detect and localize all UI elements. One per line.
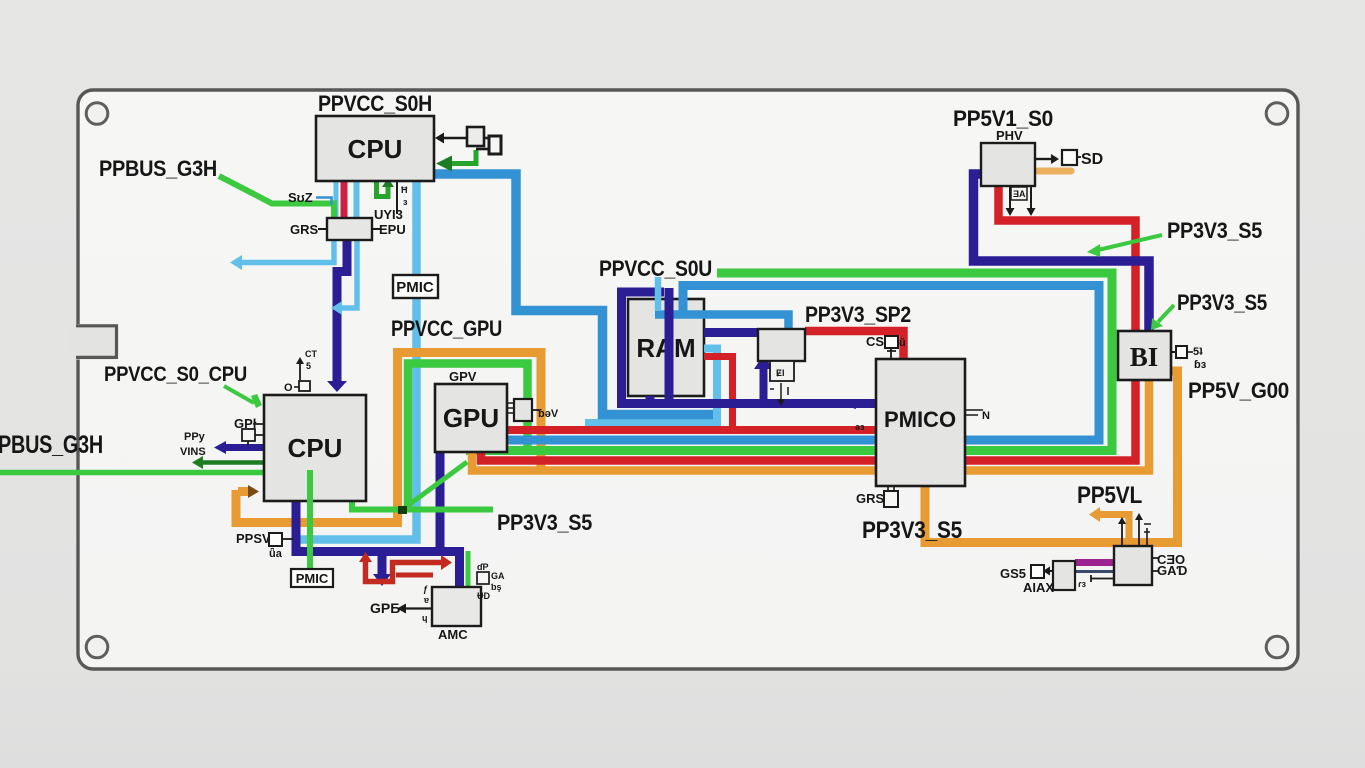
- svg-text:PPVCC_S0_CPU: PPVCC_S0_CPU: [104, 363, 247, 386]
- wire black arrows below PHV: [1009, 186, 1011, 208]
- svg-text:ɾɜ: ɾɜ: [1078, 579, 1087, 589]
- node junction dot: [398, 506, 407, 514]
- component pin box below SP2: [770, 361, 794, 381]
- component connector frame at CPU1 right: [484, 137, 489, 140]
- wire red GPU to PMICO: [507, 426, 877, 434]
- wire red SP2 to PMICO: [805, 331, 904, 360]
- wire navy through RAM: [665, 288, 674, 399]
- svg-text:GRS: GRS: [290, 222, 319, 237]
- wire navy GPU drop to AMC rail: [436, 452, 445, 552]
- block GPU: [435, 384, 507, 452]
- svg-text:PBUS_G3H: PBUS_G3H: [0, 431, 103, 459]
- wire cyan CPU1 to GRS: [354, 181, 360, 218]
- svg-text:PPy: PPy: [184, 431, 206, 443]
- svg-text:GAƊ: GAƊ: [1157, 563, 1188, 578]
- svg-text:5: 5: [306, 361, 311, 371]
- wire orange bundle GPU to BI bottom: [472, 380, 1149, 471]
- svg-text:ɓəV: ɓəV: [538, 408, 559, 420]
- wire black pin under CPU1: [396, 181, 398, 214]
- block aux (bottom right small): [1053, 561, 1075, 590]
- wire black charger link: [1091, 575, 1114, 582]
- wire navy arrow left from CPU2: [226, 444, 264, 451]
- wire orange PHV stub: [1038, 168, 1071, 175]
- svg-text:EPU: EPU: [379, 222, 406, 237]
- wire green CPU2 to PMIC label: [307, 470, 313, 569]
- svg-text:ǖa: ǖa: [269, 548, 283, 560]
- svg-text:PP3V3_S5: PP3V3_S5: [1167, 218, 1262, 243]
- wire cyan CPU long drop to PPSV: [293, 181, 417, 540]
- wire blue big loop GPU-PMICO-top: [507, 286, 1099, 441]
- wire blue pointer SUZ: [316, 198, 332, 206]
- mounting hole top-right: [1266, 103, 1288, 125]
- svg-text:AMC: AMC: [438, 627, 468, 642]
- svg-text:CPU: CPU: [288, 433, 343, 463]
- svg-text:AIAX: AIAX: [1023, 580, 1054, 595]
- PCB board outline: [78, 90, 1298, 669]
- pin DA box below PHV: [1011, 187, 1027, 200]
- block PHV (PP5V1 regulator): [981, 128, 1035, 186]
- svg-text:O: O: [284, 382, 293, 394]
- wire navy CPU2 bottom to AMC: [296, 501, 460, 587]
- wire black arrow GPB from AMC: [406, 607, 432, 609]
- svg-text:ɆI: ɆI: [776, 368, 785, 378]
- wire red loop at AMC: [366, 560, 442, 582]
- block regulator SP2: [758, 329, 805, 361]
- mounting hole bottom-left: [86, 636, 108, 658]
- svg-text:ɓɜ: ɓɜ: [1194, 359, 1207, 371]
- svg-text:PP3V3_S5: PP3V3_S5: [862, 517, 962, 544]
- block PMICO: [876, 359, 965, 486]
- svg-text:PP5V1_S0: PP5V1_S0: [953, 106, 1053, 131]
- svg-text:BI: BI: [1130, 342, 1159, 372]
- wire red RAM right branch: [704, 357, 733, 431]
- component connector square at CPU1 right: [467, 127, 484, 146]
- wire green long horizontal from CPU2: [352, 501, 493, 510]
- wire orange PMICO bottom to BI right: [925, 371, 1178, 543]
- wire navy RAM bottom stub: [646, 396, 655, 400]
- svg-text:ƎA: ƎA: [1013, 189, 1026, 199]
- svg-text:ƒ: ƒ: [423, 584, 428, 594]
- svg-text:PP3V3_SP2: PP3V3_SP2: [805, 302, 911, 327]
- board edge connector notch: [70, 324, 117, 360]
- block RAM: [628, 299, 704, 396]
- wire navy GRS down to CPU2 arrow: [337, 240, 347, 381]
- component SD square: [1062, 150, 1077, 165]
- svg-text:GPU: GPU: [443, 403, 499, 433]
- wire navy RAM to SP2: [704, 328, 758, 337]
- svg-text:ɗP: ɗP: [477, 562, 489, 572]
- block regulator GRS: [327, 218, 372, 240]
- wire dark green arrow left from CPU2: [203, 460, 264, 465]
- wire cyan arrow short left below GRS: [342, 240, 357, 308]
- wire green U pin under CPU1: [377, 181, 389, 197]
- mounting hole top-left: [86, 103, 108, 125]
- svg-text:PMIC: PMIC: [296, 571, 329, 586]
- wire black arrow up CT at CPU2: [299, 364, 301, 380]
- svg-text:PP3V3_S5: PP3V3_S5: [497, 510, 592, 535]
- svg-text:GPБ: GPБ: [370, 600, 400, 616]
- wire magenta charger link: [1075, 559, 1114, 566]
- block CPU lower (U2): [264, 395, 366, 501]
- wire green pointer PP3V3_S5 at BI: [1158, 305, 1174, 322]
- block CPU top (U1): [316, 116, 434, 181]
- wire navy arrow down branch: [378, 552, 387, 575]
- wire navy arrow up into SP2: [760, 367, 768, 404]
- wire green PPBUS_G3H to GRS: [219, 176, 334, 218]
- wire cyan arrow left from GRS: [242, 240, 334, 263]
- block BI: [1118, 331, 1171, 380]
- wire cyan RAM right upper stub: [585, 349, 717, 424]
- svg-text:ǔ: ǔ: [899, 337, 906, 349]
- wire black arrow aux to GS5: [1050, 570, 1053, 572]
- wire green pointer PP3V3_S5 upper: [1098, 235, 1162, 250]
- wire slate charger link: [1075, 570, 1114, 573]
- svg-text:N: N: [982, 410, 990, 422]
- wire red stub to AMC: [396, 573, 433, 578]
- svg-text:ɥ: ɥ: [422, 613, 428, 623]
- svg-text:PMICO: PMICO: [884, 407, 956, 432]
- svg-text:VINS: VINS: [180, 446, 206, 458]
- wire black arrows up from charger box: [1121, 524, 1123, 546]
- wire red PP5V1 long loop: [481, 186, 1136, 461]
- block charger (bottom right): [1114, 546, 1152, 585]
- svg-text:PPBUS_G3H: PPBUS_G3H: [99, 156, 217, 181]
- svg-text:CT: CT: [305, 349, 317, 359]
- svg-text:PPSV: PPSV: [236, 531, 271, 546]
- svg-text:SD: SD: [1081, 151, 1103, 168]
- pin connector right of BI: [1171, 351, 1176, 353]
- svg-text:PMIC: PMIC: [396, 279, 434, 296]
- wire blue RAM crossing to SP2: [655, 315, 789, 331]
- wire orange CPU2 big loop: [236, 353, 541, 523]
- svg-text:Ħ: Ħ: [401, 185, 408, 195]
- wire green elbow at CPU1 right: [452, 150, 476, 164]
- svg-text:GA: GA: [491, 571, 505, 581]
- wire navy RAM loop and rail to PMICO: [622, 292, 878, 404]
- wire navy arrowhead on rail at PMICO: [840, 399, 856, 409]
- svg-text:ɐ: ɐ: [423, 595, 429, 605]
- wire black arrow PHV to SD: [1036, 158, 1051, 160]
- wire cyan CPU1 to GRS left: [334, 181, 339, 218]
- wire black arrow into CPU1 right: [444, 137, 466, 140]
- component label box PMIC (upper): [393, 275, 438, 298]
- wire green big loop GPU-PMICO-top: [466, 273, 1112, 451]
- wire green diagonal: [399, 462, 467, 512]
- wire cyan stub above RAM: [655, 277, 662, 311]
- svg-text:GS5: GS5: [1000, 566, 1026, 581]
- wire green drop to AMC: [466, 551, 471, 587]
- svg-text:SʊZ: SʊZ: [288, 190, 313, 205]
- svg-text:CS: CS: [866, 334, 884, 349]
- pin label GRS at regulator: [318, 228, 327, 230]
- wire green PBUS_G3H horizontal: [0, 470, 264, 476]
- pin labels CCO GAD at charger: [1152, 558, 1158, 571]
- pin label EPU at regulator: [372, 228, 380, 230]
- svg-text:PPVCC_GPU: PPVCC_GPU: [391, 316, 502, 341]
- wire navy PHV to BI: [974, 174, 1150, 331]
- wire crimson CPU1 to GRS: [341, 181, 348, 218]
- component small box right of GPU: [507, 403, 514, 413]
- svg-text:PP5V_G00: PP5V_G00: [1188, 378, 1289, 403]
- svg-text:ɄD: ɄD: [477, 591, 490, 601]
- svg-text:5ʇ: 5ʇ: [1193, 346, 1203, 358]
- svg-text:ɜ: ɜ: [403, 197, 408, 207]
- svg-text:GRS: GRS: [856, 491, 885, 506]
- svg-text:ƅş: ƅş: [491, 582, 502, 592]
- svg-text:PP5VL: PP5VL: [1077, 482, 1142, 509]
- wire green pointer to CPU2: [224, 386, 254, 403]
- component label box PMIC (lower): [291, 569, 333, 587]
- wire orange arrow into CPU2: [238, 487, 248, 496]
- wire orange PP5VL arrow: [1100, 515, 1129, 548]
- wire blue CPU to RAM underside: [434, 174, 713, 415]
- svg-text:CPU: CPU: [348, 134, 403, 164]
- svg-text:PPVCC_S0H: PPVCC_S0H: [318, 91, 432, 116]
- svg-text:PPVCC_S0U: PPVCC_S0U: [599, 256, 712, 281]
- svg-text:ǝɜ: ǝɜ: [855, 422, 865, 432]
- svg-text:UYI3: UYI3: [374, 207, 403, 222]
- svg-text:GPV: GPV: [449, 369, 477, 384]
- svg-text:PP3V3_S5: PP3V3_S5: [1177, 290, 1267, 315]
- pin N at PMICO right: [965, 410, 983, 415]
- wire green inner GPU loop: [408, 364, 528, 510]
- block AMC: [432, 587, 481, 642]
- mounting hole bottom-right: [1266, 636, 1288, 658]
